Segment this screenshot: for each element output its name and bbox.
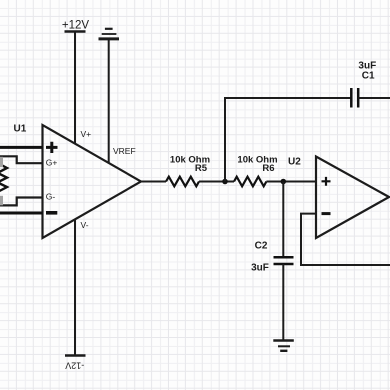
svg-text:G+: G+ [46,158,58,168]
U1 pin + (non-inverting input marker) [46,142,58,153]
svg-text:G-: G- [46,192,56,202]
op-amp U2 [316,157,389,239]
svg-text:+12V: +12V [62,20,90,32]
svg-text:U2: U2 [288,157,301,168]
ground (bottom) [273,341,294,351]
wire: C2 to bottom ground [282,264,284,341]
wire: U2 feedback (- input, left, down, to right edge) [301,214,390,265]
resistor R6 [234,177,266,187]
svg-text:VREF: VREF [113,146,136,156]
wire: + input of U1 to left edge [0,146,43,149]
resistor RG body edge (gray, cut off) upper [0,157,3,167]
wire: - input of U1 to left edge [0,212,43,215]
wire: U1 output to R5 [141,181,166,183]
ground (top, inverted) [99,29,120,39]
capacitor C2 [274,257,294,264]
svg-text:V-: V- [81,220,89,230]
wire: G- pin step to gain resistor [0,198,43,206]
wire: R6 to U2 + input [266,181,316,183]
wire: C1 to right edge [358,97,390,99]
+12V supply bar [65,30,86,32]
svg-text:3uF: 3uF [251,263,269,274]
wire: top ground to U1 VREF pin [108,39,110,163]
-12V supply bar [65,354,86,356]
junction node at U2 input / C2 [281,179,287,185]
capacitor C1 [351,88,358,108]
resistor RG body edge (gray, cut off) lower [0,196,3,206]
wire: junction down to C2 [282,182,284,258]
svg-text:C2: C2 [255,241,268,252]
resistor RG (gain resistor, cut off at left edge) [0,163,7,192]
U2 pin + (non-inverting input marker) [322,177,331,186]
wire: U1 V- pin to -12V [74,219,76,356]
svg-text:R6: R6 [262,163,274,174]
svg-text:-12V: -12V [65,360,84,370]
U1 pin - (inverting input marker) [46,211,57,215]
wire: +12V to U1 V+ pin [74,32,76,145]
wire: R5 to R6 [199,181,234,183]
wire: G+ pin step to gain resistor [0,156,43,163]
wire: junction up and over to C1 [225,98,351,182]
svg-text:V+: V+ [81,129,92,139]
svg-text:C1: C1 [362,71,375,82]
svg-text:U1: U1 [14,124,27,135]
junction node at R5/R6 [222,179,228,185]
resistor R5 [166,177,199,187]
U2 pin - (inverting input marker) [322,212,331,215]
op-amp U1 (instrumentation amplifier triangle) [43,125,142,238]
svg-text:R5: R5 [195,163,208,174]
